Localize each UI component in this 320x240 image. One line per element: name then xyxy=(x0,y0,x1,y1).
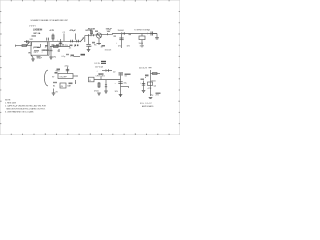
svg-text:10μ: 10μ xyxy=(150,95,153,97)
ground g3 xyxy=(87,50,91,52)
resistor R7 xyxy=(94,82,100,93)
LED LED1 xyxy=(105,80,107,91)
wire branch xyxy=(50,47,52,58)
resistor R2 xyxy=(50,29,55,41)
svg-text:1. RES 1/4W: 1. RES 1/4W xyxy=(5,102,16,104)
wire to U1 xyxy=(31,42,33,46)
svg-text:R5: R5 xyxy=(94,45,96,47)
ground g8 xyxy=(142,91,146,93)
wire battery neg xyxy=(54,89,59,94)
capacitor C3 electrolytic xyxy=(57,39,62,47)
wire lower bus xyxy=(94,79,121,81)
capacitor C1 xyxy=(27,40,29,43)
wire feed 470uF xyxy=(75,34,77,40)
svg-text:D2: D2 xyxy=(113,71,115,73)
node IN : input jack xyxy=(16,45,32,47)
wire top rail xyxy=(24,41,80,43)
capacitor C7 xyxy=(148,30,159,39)
svg-text:AMP BOARD: AMP BOARD xyxy=(142,105,154,108)
capacitor C10 electrolytic xyxy=(140,81,145,91)
svg-text:2. CAPS IN μF UNLESS NOTED. AD: 2. CAPS IN μF UNLESS NOTED. ADJ VR1 FOR xyxy=(5,104,47,107)
op-amp U1 label xyxy=(33,29,42,35)
svg-text:3 4 5: 3 4 5 xyxy=(34,52,38,54)
label C5 xyxy=(106,28,113,33)
svg-text:DC IN: DC IN xyxy=(95,63,101,65)
capacitor C13 above rail xyxy=(47,38,49,41)
svg-text:MIN DISTORTION AT FULL RATED O: MIN DISTORTION AT FULL RATED OUTPUT. xyxy=(7,107,46,110)
svg-text:FIG. 2-14 P: FIG. 2-14 P xyxy=(140,103,153,105)
diode D1 xyxy=(118,30,125,35)
svg-text:.05: .05 xyxy=(69,48,72,50)
ground under U1 xyxy=(31,58,35,62)
capacitor C8 xyxy=(56,65,70,73)
ground g7 xyxy=(119,95,123,97)
value labels row xyxy=(53,56,75,59)
svg-text:47μ: 47μ xyxy=(124,83,127,85)
wire right column xyxy=(150,70,152,96)
svg-text:100μF: 100μF xyxy=(37,58,43,60)
label row xyxy=(96,76,105,78)
transistor Q4 xyxy=(148,82,157,90)
svg-text:220μ: 220μ xyxy=(65,65,69,67)
svg-text:▸: ▸ xyxy=(128,86,129,89)
border ruler top xyxy=(0,0,180,135)
svg-text:12V 0.5A: 12V 0.5A xyxy=(95,66,104,69)
ground g2 xyxy=(49,57,53,59)
extra density row xyxy=(37,44,70,57)
charger label block xyxy=(95,61,107,73)
svg-text:470Ω: 470Ω xyxy=(94,91,99,93)
svg-text:1 W 6 V: 1 W 6 V xyxy=(29,26,36,28)
svg-text:NOTE:: NOTE: xyxy=(5,99,11,101)
svg-text:470: 470 xyxy=(118,46,121,48)
resistor R8 xyxy=(145,73,160,83)
svg-text:+ C4: + C4 xyxy=(70,56,74,58)
ground g4 xyxy=(52,93,56,95)
resistor R3 xyxy=(54,45,69,48)
capacitor C11 inline xyxy=(71,40,73,43)
svg-text:BC548: BC548 xyxy=(88,27,96,30)
svg-text:MP-3A: MP-3A xyxy=(34,32,41,35)
svg-text:1N4148: 1N4148 xyxy=(105,50,112,52)
values row2 xyxy=(45,46,92,49)
svg-text:JK1: JK1 xyxy=(102,76,105,78)
svg-text:1N4001: 1N4001 xyxy=(118,30,125,32)
wire rail upper xyxy=(85,34,94,36)
transistor Q1 xyxy=(80,36,91,50)
capacitor C6 xyxy=(116,35,131,49)
svg-text:3. USE HEATSINK ON IC1 CASE.: 3. USE HEATSINK ON IC1 CASE. xyxy=(5,110,34,113)
label ZD1 xyxy=(139,68,152,70)
svg-text:VR1: VR1 xyxy=(30,39,34,41)
connector J1 box xyxy=(89,77,95,82)
switch S1 box xyxy=(52,74,78,79)
capacitor C9 xyxy=(115,82,127,85)
battery bracket xyxy=(45,70,49,86)
svg-text:Q4: Q4 xyxy=(154,86,157,88)
title text xyxy=(29,19,68,28)
capacitor C2 xyxy=(63,32,65,41)
border tick marks xyxy=(0,0,180,135)
svg-text:LM380N: LM380N xyxy=(33,29,42,32)
wire stub row xyxy=(57,49,80,57)
svg-text:470μF: 470μF xyxy=(70,29,77,32)
svg-text:150Ω: 150Ω xyxy=(139,43,144,45)
wire right rail xyxy=(112,33,157,35)
svg-text:ZD1 6.2V: ZD1 6.2V xyxy=(139,68,148,70)
svg-text:0.1μ: 0.1μ xyxy=(62,56,66,58)
battery B1 xyxy=(53,80,76,88)
op-amp U1 body xyxy=(31,42,49,55)
resistor R6 xyxy=(139,34,146,48)
svg-text:C6: C6 xyxy=(57,51,59,53)
transistor Q3 top xyxy=(119,72,127,96)
svg-text:7: 7 xyxy=(42,52,43,54)
value row xyxy=(150,95,160,97)
svg-text:16V: 16V xyxy=(107,31,111,33)
junction node xyxy=(147,33,148,34)
potentiometer VR1 xyxy=(22,39,33,47)
svg-text:J1: J1 xyxy=(89,80,91,82)
ground g6 xyxy=(104,91,108,93)
svg-text:47Ω: 47Ω xyxy=(53,57,57,59)
value label smudges xyxy=(32,31,161,95)
wire mid rail xyxy=(50,46,70,48)
figure label xyxy=(140,103,154,108)
capacitor C12 inline xyxy=(77,40,79,43)
notes text block xyxy=(5,99,47,113)
svg-text:S2: S2 xyxy=(125,76,127,78)
node tick xyxy=(98,74,101,79)
svg-text:B1: B1 xyxy=(53,85,55,87)
svg-text:ON-OFF: ON-OFF xyxy=(60,77,68,79)
wire branch right xyxy=(121,86,130,89)
ground g5 xyxy=(97,93,101,95)
ground g9 xyxy=(149,98,153,99)
resistor R1 xyxy=(29,53,34,58)
transistor Q2 group xyxy=(88,27,113,51)
svg-text:4.7K: 4.7K xyxy=(50,29,55,32)
diode D2 xyxy=(102,69,115,73)
